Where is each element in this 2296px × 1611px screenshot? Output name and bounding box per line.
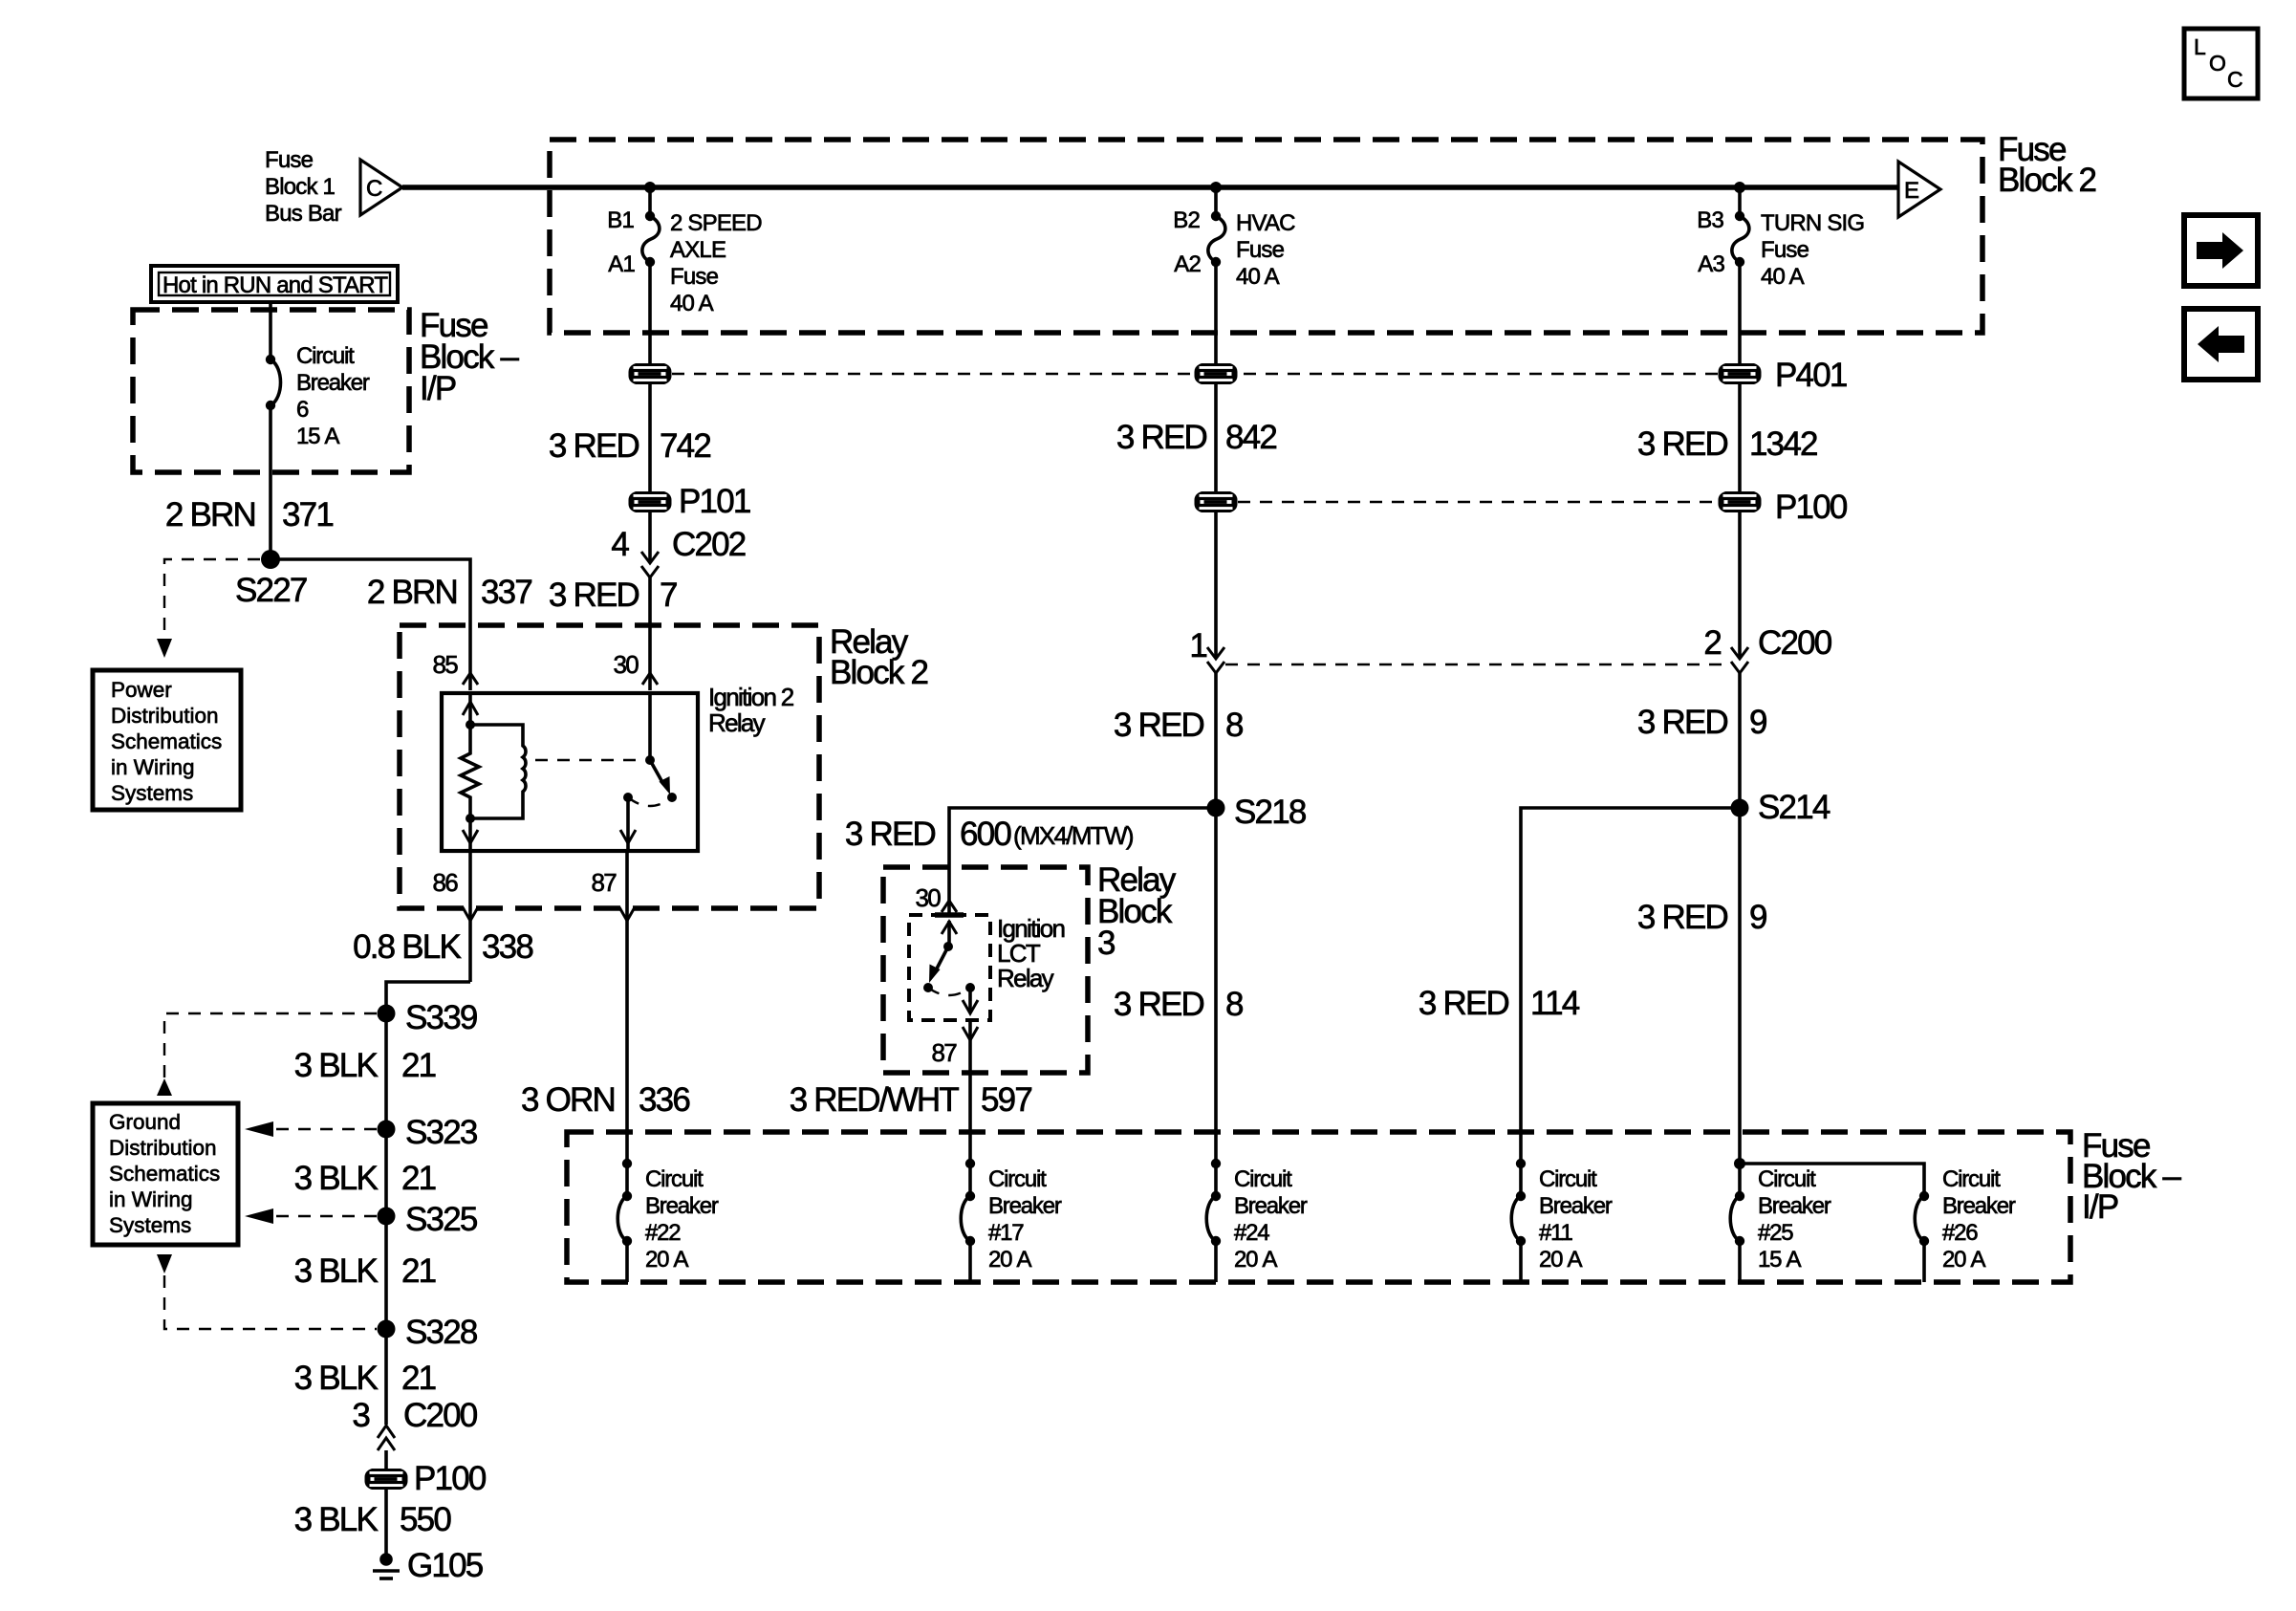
svg-text:B3: B3 — [1697, 207, 1723, 233]
wire — [648, 187, 652, 216]
svg-text:Ground: Ground — [109, 1110, 181, 1134]
svg-text:3 RED: 3 RED — [1116, 419, 1207, 456]
Relay Block 2 dashed box — [400, 625, 819, 908]
dashed crossover line C200 — [1225, 664, 1730, 665]
svg-text:30: 30 — [613, 650, 639, 679]
svg-text:2: 2 — [1703, 624, 1721, 662]
wire 3 RED/WHT 597 — [968, 1020, 972, 1196]
fuse F2: HVAC 40 A — [1208, 216, 1225, 262]
svg-text:Breaker: Breaker — [1234, 1193, 1308, 1219]
svg-text:Relay: Relay — [997, 964, 1054, 992]
svg-text:600: 600 — [960, 816, 1011, 853]
dashed crossover line P-row2 — [1216, 501, 1740, 503]
TURN SIG Fuse 40 A value label — [1761, 210, 1864, 290]
svg-text:3 BLK: 3 BLK — [294, 1360, 379, 1397]
wire 0.8 BLK 338 — [386, 982, 470, 1013]
svg-text:C200: C200 — [403, 1397, 478, 1434]
svg-text:S227: S227 — [235, 572, 307, 609]
svg-text:A3: A3 — [1698, 251, 1724, 277]
LCT switch arm up arrow — [947, 921, 951, 947]
svg-text:Circuit: Circuit — [1942, 1166, 2001, 1192]
svg-text:7: 7 — [660, 577, 677, 614]
wire — [1738, 512, 1742, 658]
svg-text:Relay: Relay — [708, 708, 766, 737]
splice S339 — [378, 1005, 396, 1023]
Relay Block 2 label — [830, 623, 928, 691]
connector C200 pin 3 — [352, 1397, 477, 1450]
LCT switch pivot — [943, 942, 953, 951]
dashed ref from S339 to ground distribution — [164, 1013, 377, 1080]
wire 3 RED 9 — [1738, 673, 1742, 808]
svg-text:85: 85 — [432, 650, 458, 679]
wire — [648, 262, 652, 363]
pin B3 — [1735, 211, 1744, 221]
svg-text:20 A: 20 A — [1942, 1247, 1985, 1273]
svg-text:Circuit: Circuit — [1758, 1166, 1816, 1192]
splice S325 — [378, 1208, 396, 1226]
svg-text:O: O — [2209, 51, 2226, 76]
svg-text:I/P: I/P — [420, 370, 456, 407]
LCT switch arm with arrow — [936, 947, 948, 970]
svg-text:3 RED: 3 RED — [1114, 707, 1204, 744]
svg-text:20 A: 20 A — [645, 1247, 688, 1273]
svg-text:114: 114 — [1530, 985, 1580, 1022]
bus bar wire — [402, 185, 1897, 190]
svg-text:(MX4/MTW): (MX4/MTW) — [1013, 821, 1134, 850]
svg-text:Breaker: Breaker — [988, 1193, 1062, 1219]
svg-text:Breaker: Breaker — [645, 1193, 719, 1219]
coil node bottom — [466, 814, 475, 823]
svg-text:9: 9 — [1749, 704, 1766, 741]
svg-text:0.8 BLK: 0.8 BLK — [353, 928, 461, 966]
svg-text:Breaker: Breaker — [1942, 1193, 2016, 1219]
Fuse Block 2 label — [1998, 131, 2096, 199]
splice S227 — [261, 550, 280, 569]
dashed crossover line P-row1 — [650, 373, 1740, 375]
Relay Block 3 dashed box — [883, 867, 1088, 1073]
svg-text:A2: A2 — [1174, 251, 1201, 277]
alternate-position dashed arc — [628, 797, 672, 806]
pin B1 — [645, 211, 655, 221]
svg-text:G105: G105 — [407, 1547, 483, 1584]
LCT alternate position dashed arc — [928, 988, 970, 995]
svg-text:21: 21 — [401, 1360, 436, 1397]
svg-text:C: C — [2227, 67, 2243, 92]
svg-text:3 RED: 3 RED — [549, 577, 639, 614]
wire — [1738, 262, 1742, 363]
connector C200 pin 2 — [1703, 624, 1831, 673]
svg-text:Block 1: Block 1 — [265, 174, 336, 200]
svg-text:in Wiring: in Wiring — [111, 755, 195, 779]
svg-text:Circuit: Circuit — [645, 1166, 704, 1192]
svg-text:Circuit: Circuit — [1234, 1166, 1292, 1192]
circuit breaker #24 — [1206, 1159, 1308, 1273]
svg-text:Circuit: Circuit — [296, 343, 355, 369]
svg-text:550: 550 — [400, 1501, 451, 1538]
coil L1 — [470, 725, 526, 818]
LCT contact left — [923, 983, 933, 992]
circuit breaker #26 — [1915, 1166, 2016, 1282]
svg-text:#22: #22 — [645, 1220, 681, 1246]
svg-text:#24: #24 — [1234, 1220, 1269, 1246]
svg-text:Schematics: Schematics — [111, 729, 222, 753]
node bus/col1 junction — [644, 182, 656, 193]
switch contact right — [667, 793, 677, 802]
svg-text:3 RED/WHT: 3 RED/WHT — [790, 1081, 960, 1119]
Relay Block 3 label — [1097, 861, 1177, 962]
dashed ref to power distribution — [164, 559, 260, 637]
svg-text:B1: B1 — [607, 207, 634, 233]
wire S227 to relay pin 85 (2 BRN 337) — [271, 559, 470, 690]
svg-text:2 BRN: 2 BRN — [165, 496, 255, 533]
wire 3 BLK 21 (below S328) — [384, 1329, 388, 1425]
svg-text:Schematics: Schematics — [109, 1162, 220, 1186]
svg-text:#11: #11 — [1539, 1220, 1573, 1246]
off-page connector C — [360, 160, 402, 215]
jumper wire CB25 to CB26 — [1740, 1164, 1924, 1196]
wire — [1214, 262, 1218, 363]
svg-text:8: 8 — [1225, 986, 1243, 1023]
svg-text:Ignition 2: Ignition 2 — [708, 683, 794, 711]
svg-text:Breaker: Breaker — [1758, 1193, 1831, 1219]
svg-text:Breaker: Breaker — [1539, 1193, 1613, 1219]
svg-text:21: 21 — [401, 1047, 436, 1084]
svg-text:Fuse: Fuse — [265, 147, 314, 173]
svg-text:S328: S328 — [405, 1314, 477, 1351]
svg-text:3 RED: 3 RED — [1637, 425, 1728, 463]
svg-text:337: 337 — [481, 574, 531, 611]
wire — [1738, 384, 1742, 491]
svg-text:338: 338 — [482, 928, 532, 966]
svg-text:P101: P101 — [679, 483, 750, 520]
svg-text:3 RED: 3 RED — [549, 427, 639, 465]
pin B2 — [1211, 211, 1221, 221]
svg-text:Distribution: Distribution — [111, 704, 219, 728]
splice S218 — [1207, 799, 1225, 817]
svg-text:Circuit: Circuit — [988, 1166, 1047, 1192]
svg-text:21: 21 — [401, 1252, 436, 1290]
svg-text:87: 87 — [931, 1038, 957, 1067]
LCT fixed contact bar — [935, 912, 964, 918]
wire contact to pin 87 — [626, 797, 630, 851]
svg-text:21: 21 — [401, 1160, 436, 1197]
Ground Distribution Schematics box — [93, 1103, 238, 1245]
wire — [384, 1450, 388, 1469]
wire 3 RED 114 branch (S214 to CB11) — [1521, 808, 1740, 1196]
svg-text:8: 8 — [1225, 707, 1243, 744]
Fuse Block 1 Bus Bar label — [265, 147, 342, 227]
svg-text:336: 336 — [639, 1081, 689, 1119]
svg-text:20 A: 20 A — [1539, 1247, 1582, 1273]
svg-text:3: 3 — [1097, 925, 1115, 962]
dashed arrow S325 to ground box — [275, 1215, 377, 1217]
grommet P401 — [1719, 363, 1762, 384]
fuse F3: TURN SIG 40 A — [1732, 216, 1749, 262]
node bus/col2 junction — [1210, 182, 1222, 193]
svg-text:3 ORN: 3 ORN — [521, 1081, 615, 1119]
svg-text:4: 4 — [611, 526, 629, 563]
svg-text:C: C — [366, 176, 382, 202]
HVAC Fuse 40 A value label — [1236, 210, 1295, 290]
wire pin87 exits (3 ORN 336) — [625, 851, 629, 1196]
grommet P101 — [629, 491, 672, 512]
grommet pass-through (col2 row2) — [1195, 491, 1238, 512]
svg-text:C200: C200 — [1758, 624, 1832, 662]
svg-text:40 A: 40 A — [1236, 264, 1280, 290]
svg-text:1342: 1342 — [1749, 425, 1817, 463]
svg-text:Systems: Systems — [111, 781, 193, 805]
svg-text:S339: S339 — [405, 999, 477, 1036]
svg-text:3 BLK: 3 BLK — [294, 1501, 379, 1538]
ground G105 — [373, 1547, 483, 1584]
svg-text:3 RED: 3 RED — [1114, 986, 1204, 1023]
svg-text:Fuse: Fuse — [670, 264, 719, 290]
svg-text:742: 742 — [660, 427, 710, 465]
svg-text:S218: S218 — [1234, 794, 1306, 831]
svg-text:TURN SIG: TURN SIG — [1761, 210, 1864, 236]
svg-text:1: 1 — [1189, 627, 1206, 664]
wire 3 RED 9 (S214 down to CB25) — [1738, 808, 1742, 1196]
wire to pin 86 — [468, 818, 472, 851]
svg-text:30: 30 — [915, 883, 941, 912]
wire pin86 exits — [468, 851, 472, 982]
wire 3 BLK 21 (S339-S323) — [384, 1013, 388, 1129]
svg-text:Systems: Systems — [109, 1213, 191, 1237]
grommet pass-through (col1 row1) — [629, 363, 672, 384]
svg-text:15 A: 15 A — [1758, 1247, 1801, 1273]
wire — [1214, 187, 1218, 216]
Hot in RUN and START tag — [151, 266, 398, 302]
svg-text:3 BLK: 3 BLK — [294, 1047, 379, 1084]
svg-text:Block 2: Block 2 — [1998, 162, 2096, 199]
svg-text:HVAC: HVAC — [1236, 210, 1295, 236]
svg-text:P100: P100 — [1775, 489, 1848, 526]
svg-text:3 RED: 3 RED — [1419, 985, 1509, 1022]
svg-text:Fuse: Fuse — [1761, 237, 1809, 263]
svg-text:20 A: 20 A — [988, 1247, 1031, 1273]
Power Distribution Schematics box — [93, 670, 241, 810]
svg-text:S214: S214 — [1758, 789, 1830, 826]
svg-text:#26: #26 — [1942, 1220, 1978, 1246]
Fuse Block - I/P label (bottom) — [2082, 1127, 2182, 1226]
svg-text:I/P: I/P — [2082, 1188, 2118, 1226]
dashed arrow S323 to ground box — [275, 1128, 377, 1130]
svg-text:S323: S323 — [405, 1114, 477, 1151]
LOC box — [2184, 29, 2258, 98]
svg-text:3: 3 — [352, 1397, 369, 1434]
circuit breaker #22 — [617, 1159, 719, 1273]
svg-text:S325: S325 — [405, 1201, 477, 1238]
dashed ref below ground box to S328 — [157, 1254, 172, 1274]
splice S323 — [378, 1121, 396, 1139]
wire — [648, 577, 652, 690]
svg-text:E: E — [1904, 178, 1918, 204]
svg-text:Fuse: Fuse — [1236, 237, 1285, 263]
svg-text:Block 2: Block 2 — [830, 654, 928, 691]
pin A1 — [645, 257, 655, 267]
switch arm with arrow — [650, 760, 663, 784]
wire 3 RED 8 (S218 down to CB24) — [1214, 808, 1218, 1196]
wire 3 BLK 21 (S323-S325) — [384, 1129, 388, 1216]
switch pivot (from pin 30) — [648, 693, 652, 760]
svg-text:371: 371 — [282, 496, 333, 533]
Fuse Block 2 dashed box — [550, 140, 1982, 333]
Fuse Block I/P dashed box (top left) — [133, 310, 409, 472]
wire — [648, 384, 652, 491]
grommet P100 — [1719, 491, 1762, 512]
wire 2 BRN 371 — [269, 405, 272, 559]
svg-text:15 A: 15 A — [296, 424, 339, 449]
svg-text:AXLE: AXLE — [670, 237, 726, 263]
svg-text:86: 86 — [432, 868, 458, 897]
ignition 2 relay box U1 — [442, 693, 698, 851]
svg-text:40 A: 40 A — [1761, 264, 1805, 290]
LCT contact right (to 87) — [965, 983, 975, 992]
resistor (relay coil suppression) — [461, 725, 479, 818]
wire — [1214, 512, 1218, 658]
wire from hot tag — [269, 300, 272, 359]
back arrow box — [2184, 309, 2258, 380]
switch contact left (to 87) — [623, 793, 633, 802]
fuse F1: 2 SPEED AXLE 40 A — [642, 216, 660, 262]
svg-text:Breaker: Breaker — [296, 370, 370, 396]
svg-text:9: 9 — [1749, 899, 1766, 936]
svg-text:Power: Power — [111, 678, 172, 702]
grommet pass-through (col2 row1) — [1195, 363, 1238, 384]
svg-text:B2: B2 — [1173, 207, 1200, 233]
svg-text:in Wiring: in Wiring — [109, 1187, 193, 1211]
svg-text:P100: P100 — [414, 1460, 487, 1497]
wire 3 RED 8 — [1214, 673, 1218, 808]
connector C202 pin 4 — [611, 526, 745, 577]
svg-text:3 RED: 3 RED — [845, 816, 936, 853]
circuit breaker #25 — [1730, 1158, 1831, 1273]
svg-text:Distribution: Distribution — [109, 1136, 217, 1160]
op coil feed wire inside relay — [468, 693, 472, 725]
svg-text:3 BLK: 3 BLK — [294, 1160, 379, 1197]
wire — [1214, 384, 1218, 491]
svg-text:Circuit: Circuit — [1539, 1166, 1597, 1192]
svg-text:3 RED: 3 RED — [1637, 704, 1728, 741]
svg-text:597: 597 — [981, 1081, 1031, 1119]
circuit breaker #17 — [961, 1159, 1062, 1273]
wire 3 BLK 550 — [384, 1490, 388, 1555]
forward arrow box — [2184, 215, 2258, 286]
svg-text:20 A: 20 A — [1234, 1247, 1277, 1273]
wire 3 RED 600 branch (S218 to LCT relay pin 30) — [949, 808, 1216, 913]
grommet P100 (floor pass-through) — [365, 1469, 408, 1490]
svg-text:P401: P401 — [1775, 357, 1847, 394]
svg-text:2 BRN: 2 BRN — [367, 574, 457, 611]
coil-to-arm dashed link — [535, 759, 636, 761]
pin A3 — [1735, 257, 1744, 267]
svg-text:2 SPEED: 2 SPEED — [670, 210, 762, 236]
svg-text:3 RED: 3 RED — [1637, 899, 1728, 936]
svg-text:40 A: 40 A — [670, 291, 714, 316]
wire 3 BLK 21 (S325-S328) — [384, 1216, 388, 1329]
svg-text:C202: C202 — [672, 526, 746, 563]
svg-text:6: 6 — [296, 397, 309, 423]
Fuse Block - I/P label — [420, 307, 520, 407]
svg-text:842: 842 — [1225, 419, 1276, 456]
svg-text:A1: A1 — [608, 251, 635, 277]
svg-text:Bus Bar: Bus Bar — [265, 201, 342, 227]
svg-text:#17: #17 — [988, 1220, 1024, 1246]
circuit breaker 6 — [266, 355, 275, 364]
wire — [1738, 187, 1742, 216]
svg-text:L: L — [2194, 34, 2206, 59]
Ignition LCT Relay inner dashed box — [909, 915, 990, 1020]
2 SPEED AXLE Fuse 40 A value label — [670, 210, 762, 316]
pin A2 — [1211, 257, 1221, 267]
Fuse Block I/P dashed box (bottom) — [567, 1132, 2070, 1282]
coil node top — [466, 720, 475, 729]
connector C200 pin 1 — [1189, 627, 1224, 673]
wire — [648, 512, 652, 562]
circuit breaker #11 — [1511, 1159, 1613, 1273]
splice S214 — [1731, 799, 1749, 817]
svg-text:3 BLK: 3 BLK — [294, 1252, 379, 1290]
svg-text:Hot in RUN and START: Hot in RUN and START — [162, 272, 388, 298]
svg-text:#25: #25 — [1758, 1220, 1793, 1246]
svg-text:87: 87 — [591, 868, 617, 897]
off-page connector E — [1898, 162, 1940, 217]
node bus/col3 junction — [1734, 182, 1745, 193]
splice S328 — [378, 1320, 396, 1339]
